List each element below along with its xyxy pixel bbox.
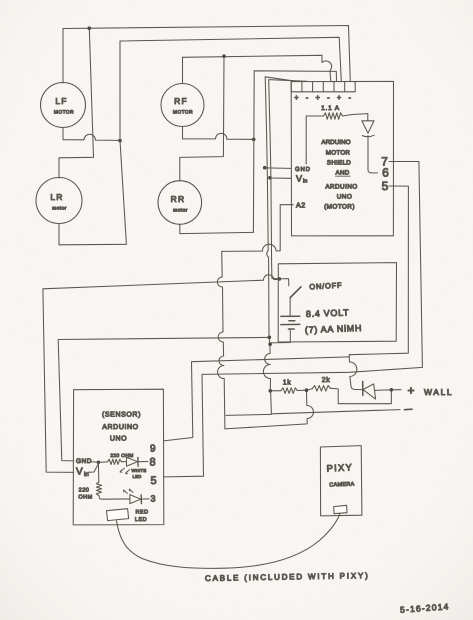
- svg-text:(SENSOR): (SENSOR): [102, 411, 141, 419]
- node junction GND pair: [263, 166, 267, 170]
- wire LF top lead: [62, 29, 64, 84]
- svg-text:RR: RR: [171, 194, 186, 204]
- svg-text:SHIELD: SHIELD: [327, 159, 351, 166]
- wire fuse left lead to GND: [306, 116, 323, 164]
- node junction LF/LR bottom: [118, 139, 122, 143]
- wire RR top link: [180, 56, 224, 181]
- wire battery negative return: [270, 329, 290, 343]
- svg-text:motor: motor: [52, 206, 67, 212]
- wire 2k right jog to wall plus: [330, 388, 391, 403]
- svg-text:+: +: [316, 93, 321, 102]
- motor RR: [158, 181, 202, 225]
- wire LR top link: [59, 28, 94, 178]
- wire wall plus stub: [391, 389, 401, 391]
- svg-text:in: in: [303, 179, 307, 185]
- svg-text:CAMERA: CAMERA: [329, 482, 355, 489]
- svg-text:WHITE: WHITE: [132, 468, 147, 473]
- wire 1k-2k link: [297, 389, 312, 391]
- svg-text:5: 5: [382, 179, 389, 193]
- node junction battery plus: [278, 277, 282, 281]
- battery BT1 plates: [281, 316, 300, 329]
- wire switch to battery: [289, 297, 291, 316]
- wire R3 leads: [98, 461, 126, 464]
- svg-text:LR: LR: [50, 192, 63, 202]
- svg-text:MOTOR: MOTOR: [54, 110, 74, 116]
- wire sensor Vin internal: [88, 465, 98, 473]
- wire battery plus to sensor Vin (long left run): [43, 275, 279, 473]
- node junction battery negative: [268, 342, 272, 346]
- wire top net A (left motor tops to shield terminal): [63, 26, 350, 82]
- label sensor Vin: [76, 467, 89, 479]
- svg-text:(7) AA NiMH: (7) AA NiMH: [305, 323, 363, 335]
- wire GND lead into shield: [265, 167, 291, 170]
- svg-text:A2: A2: [296, 203, 306, 210]
- svg-text:ARDUINO: ARDUINO: [325, 183, 357, 190]
- svg-text:220 OHM: 220 OHM: [110, 453, 133, 459]
- svg-text:1.1 A: 1.1 A: [321, 105, 340, 112]
- arduino motor shield U1 box: [291, 81, 393, 236]
- connector pixy: [334, 505, 347, 513]
- svg-text:UNO: UNO: [110, 436, 127, 443]
- node junction divider mid: [305, 388, 309, 392]
- label sensor text block: [102, 411, 141, 443]
- svg-text:5: 5: [151, 475, 157, 487]
- svg-text:8.4 VOLT: 8.4 VOLT: [306, 307, 350, 319]
- wire sensor pin9 long line: [164, 357, 350, 441]
- svg-text:9: 9: [150, 444, 156, 455]
- motor LF: [41, 83, 86, 128]
- wire RF top lead: [182, 57, 184, 83]
- label shield text block: [321, 139, 357, 210]
- wire sensor GND internal: [90, 461, 97, 464]
- svg-text:ARDUINO: ARDUINO: [102, 424, 138, 431]
- battery pack box: [278, 263, 396, 342]
- svg-text:(MOTOR): (MOTOR): [324, 203, 355, 210]
- wire 1k left lead: [270, 390, 281, 392]
- svg-text:6: 6: [382, 166, 389, 180]
- svg-text:+: +: [337, 93, 342, 102]
- resistor R1 1k: [281, 388, 297, 394]
- label RED LED: [135, 510, 149, 524]
- wire shield power pair from terminals 1,2: [263, 77, 296, 391]
- svg-text:ON/OFF: ON/OFF: [309, 281, 343, 292]
- svg-text:LED: LED: [135, 517, 147, 523]
- node junction wall plus: [390, 388, 394, 392]
- wire left motor bottoms to shield terminal: [120, 37, 341, 140]
- terminal polarity labels + - + - + -: [294, 93, 351, 102]
- label + WALL: [407, 383, 453, 397]
- switch S1 ON/OFF lever: [290, 287, 301, 298]
- label 220 OHM vertical: [78, 488, 92, 501]
- label WHITE LED: [132, 468, 147, 479]
- node junction RF/RR top: [222, 54, 226, 58]
- wire pixy cable: [117, 514, 340, 568]
- connector USB sensor: [107, 509, 129, 521]
- svg-text:UNO: UNO: [337, 193, 352, 200]
- svg-text:V: V: [76, 467, 83, 478]
- motor LR: [36, 178, 82, 224]
- label Vin on shield: [296, 174, 307, 185]
- svg-text:V: V: [296, 174, 302, 184]
- node junction Vin pair: [268, 176, 272, 180]
- wire red LED row: [100, 497, 130, 500]
- svg-text:MOTOR: MOTOR: [326, 150, 351, 157]
- diode D2 wall charger: [363, 381, 392, 399]
- wire LF bottom lead with hop: [63, 128, 119, 141]
- wire RR bottom link: [180, 225, 254, 234]
- label wall minus sign: [405, 408, 413, 411]
- wire right motor bottoms bus to shield terminal: [253, 71, 336, 233]
- wire fuse right lead: [343, 114, 368, 116]
- motor RF: [161, 84, 204, 127]
- svg-text:+: +: [407, 383, 414, 397]
- svg-text:RED: RED: [135, 510, 148, 516]
- resistor R2 2k: [313, 386, 331, 392]
- svg-text:2k: 2k: [322, 376, 330, 384]
- svg-text:ARDUINO: ARDUINO: [321, 139, 350, 146]
- svg-text:RF: RF: [174, 96, 188, 106]
- wire switch feed: [279, 279, 288, 286]
- svg-text:WALL: WALL: [424, 387, 453, 397]
- wire shield pin5 to charge diode: [349, 186, 408, 390]
- LED D4 red: [124, 489, 150, 504]
- svg-text:8: 8: [149, 457, 155, 469]
- wire RF bottom lead with hop: [183, 127, 253, 140]
- svg-text:OHM: OHM: [78, 495, 92, 501]
- svg-text:PIXY: PIXY: [326, 462, 353, 474]
- wire right motor tops to shield terminal (with hop): [183, 55, 332, 81]
- svg-text:LF: LF: [55, 96, 67, 106]
- svg-text:+: +: [294, 93, 299, 102]
- terminal block on shield: [291, 82, 355, 92]
- svg-text:220: 220: [79, 488, 90, 494]
- wire wall minus left stub: [226, 414, 271, 415]
- sensor arduino U2 box: [73, 389, 164, 525]
- svg-text:3: 3: [150, 494, 155, 504]
- svg-text:1k: 1k: [283, 379, 291, 387]
- wire wall minus long run: [271, 391, 400, 414]
- node junction RF bottom on bus: [252, 138, 256, 142]
- resistor R3 220 ohm: [108, 459, 122, 464]
- node junction 1k left: [269, 389, 273, 393]
- LED D3 white: [120, 457, 148, 474]
- svg-text:AND: AND: [336, 169, 350, 176]
- wire shield pin7 to sensor pin9: [164, 162, 423, 477]
- svg-text:MOTOR: MOTOR: [173, 110, 193, 116]
- svg-text:motor: motor: [173, 208, 188, 214]
- svg-text:GND: GND: [295, 166, 311, 173]
- wire battery minus to sensor GND (long left run): [58, 337, 269, 461]
- wire A2 lead long run: [217, 205, 313, 429]
- wire Vin lead into shield: [270, 177, 291, 179]
- node junction sensor supply: [97, 461, 101, 465]
- resistor R4 220 ohm vertical: [96, 462, 101, 498]
- node junction sensor GND tap: [268, 336, 272, 340]
- node junction LF top: [88, 26, 92, 30]
- pixy camera box: [320, 446, 362, 516]
- wire LR bottom link: [59, 141, 126, 245]
- fuse F1: [324, 113, 343, 119]
- svg-text:LED: LED: [132, 474, 141, 479]
- diode D1 on shield: [362, 114, 378, 173]
